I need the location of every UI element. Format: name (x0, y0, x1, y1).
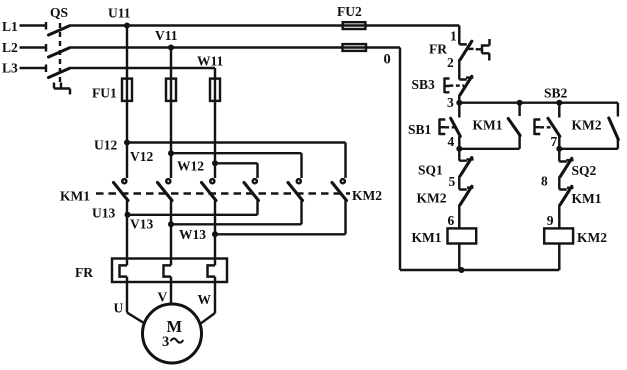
svg-text:SQ2: SQ2 (572, 163, 597, 178)
svg-text:8: 8 (541, 174, 548, 189)
svg-text:U: U (114, 301, 124, 316)
svg-text:SB1: SB1 (408, 122, 432, 137)
svg-text:V12: V12 (130, 149, 153, 164)
svg-text:SQ1: SQ1 (418, 163, 443, 178)
svg-text:W12: W12 (177, 159, 204, 174)
svg-text:KM2: KM2 (352, 188, 382, 203)
svg-text:1: 1 (450, 29, 457, 44)
svg-text:7: 7 (551, 134, 558, 149)
svg-text:V11: V11 (155, 28, 178, 43)
svg-text:W: W (198, 292, 212, 307)
svg-text:SB2: SB2 (544, 86, 568, 101)
svg-text:3: 3 (447, 95, 454, 110)
svg-text:3: 3 (162, 334, 169, 350)
svg-text:L1: L1 (2, 19, 18, 34)
svg-text:KM1: KM1 (412, 230, 442, 245)
svg-text:U12: U12 (94, 138, 117, 153)
svg-text:FU2: FU2 (337, 4, 362, 19)
svg-text:KM1: KM1 (60, 189, 90, 204)
svg-text:U13: U13 (92, 206, 115, 221)
svg-text:KM1: KM1 (572, 191, 602, 206)
svg-text:FR: FR (429, 42, 447, 57)
svg-text:FR: FR (75, 265, 93, 280)
svg-text:5: 5 (449, 174, 456, 189)
svg-text:L3: L3 (2, 61, 18, 76)
svg-text:W11: W11 (197, 54, 224, 69)
svg-text:KM2: KM2 (572, 118, 602, 133)
svg-text:6: 6 (448, 213, 455, 228)
svg-text:V: V (158, 290, 168, 305)
svg-text:4: 4 (448, 134, 455, 149)
svg-text:0: 0 (384, 52, 391, 68)
svg-text:KM1: KM1 (473, 118, 503, 133)
svg-text:V13: V13 (130, 217, 153, 232)
svg-text:QS: QS (50, 5, 68, 20)
svg-text:9: 9 (547, 213, 554, 228)
svg-text:KM2: KM2 (577, 230, 607, 245)
svg-text:KM2: KM2 (417, 191, 447, 206)
svg-text:W13: W13 (179, 227, 206, 242)
svg-text:U11: U11 (108, 6, 131, 21)
svg-text:L2: L2 (2, 40, 18, 55)
svg-text:2: 2 (447, 55, 454, 70)
svg-text:SB3: SB3 (412, 77, 436, 92)
svg-text:FU1: FU1 (92, 86, 117, 101)
